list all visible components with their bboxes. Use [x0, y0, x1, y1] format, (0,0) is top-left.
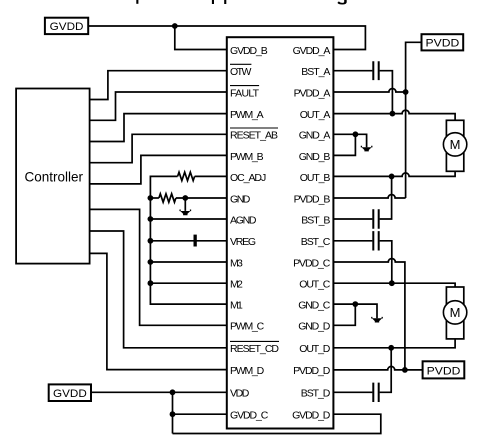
wire M2 pin to bus	[150, 282, 226, 284]
wire GND_A pin to ground	[333, 134, 366, 147]
IC U1 body	[227, 37, 334, 428]
wire GND pin to R2 and node	[176, 197, 227, 199]
svg-text:GND_D: GND_D	[298, 321, 331, 333]
svg-text:GND: GND	[230, 193, 251, 205]
svg-text:GND_C: GND_C	[298, 300, 331, 312]
resistor R2 (GND to AGND)	[159, 194, 176, 202]
svg-text:PWM_B: PWM_B	[230, 151, 264, 163]
wire C4 up to OUT_D node	[380, 348, 392, 393]
wire C2 up to OUT_B node	[380, 176, 392, 219]
svg-text:GND_B: GND_B	[299, 151, 331, 163]
controller block	[16, 89, 90, 264]
ground symbol (GND_C/GND_D)	[372, 317, 382, 323]
overline OTW	[230, 63, 251, 65]
wire GVDD_D pin down and along bottom	[173, 414, 381, 433]
capacitor C4 (BST_D bootstrap) plates	[373, 383, 378, 402]
svg-text:PVDD: PVDD	[426, 38, 460, 50]
wire PWM_B pin to controller	[90, 155, 227, 184]
wire GND_D pin up to GND_C node	[333, 304, 355, 325]
ground symbol (GND pin net, left)	[180, 210, 190, 216]
svg-text:OUT_B: OUT_B	[300, 172, 331, 184]
svg-text:Controller: Controller	[25, 169, 84, 185]
svg-text:M1: M1	[230, 300, 243, 312]
capacitor C2 (BST_B bootstrap) plates	[373, 209, 378, 228]
svg-text:GVDD: GVDD	[50, 21, 84, 33]
svg-text:BST_B: BST_B	[301, 214, 330, 226]
wire GND_B pin up to GND_A node	[333, 134, 355, 155]
wire RESET_AB pin to controller	[90, 134, 227, 162]
wire C1 to OUT_A node	[380, 71, 393, 114]
wire GVDD top rail to GVDD_A	[88, 26, 365, 50]
clipped title text descender mark 3	[224, 0, 226, 4]
junction AGND bus / GND resistor	[148, 195, 154, 201]
wire OUT_C pin to motor M2 top	[333, 283, 455, 287]
wire GVDD bottom flag to VDD pin	[91, 391, 227, 393]
svg-text:OTW: OTW	[230, 66, 251, 78]
wire M3 pin to bus	[150, 261, 226, 263]
wire AGND pin to bus	[150, 218, 226, 220]
junction GVDD top / GVDD_B	[172, 23, 178, 29]
wire PVDD_C pin to lower PVDD rail (hop over bootstrap vertical)	[333, 259, 405, 370]
svg-text:M: M	[450, 305, 461, 320]
wire FAULT pin to controller	[90, 92, 227, 120]
wire PWM_A pin to controller	[90, 114, 227, 142]
wire BST_A pin to bootstrap cap C1	[333, 70, 372, 72]
clipped title text descender mark 2	[212, 0, 214, 4]
svg-text:GVDD: GVDD	[53, 388, 87, 400]
ground symbol (GND_A/GND_B)	[361, 146, 371, 152]
svg-text:GVDD_D: GVDD_D	[292, 410, 331, 422]
svg-text:M2: M2	[230, 279, 243, 291]
svg-text:PWM_D: PWM_D	[230, 365, 265, 377]
capacitor C5 (VREG decoupling)	[194, 235, 197, 247]
clipped title text descender mark 4 (g tail)	[337, 0, 346, 5]
overline RESET_CD	[230, 340, 279, 342]
power flag GVDD (top left)	[45, 18, 88, 34]
wire VREG pin through cap C5 to bus	[150, 240, 226, 242]
junction PVDD lower rail / PVDD_D	[402, 367, 408, 373]
wire PVDD_D pin to PVDD bottom flag (hop over bootstrap vertical)	[333, 366, 422, 370]
svg-text:FAULT: FAULT	[230, 87, 260, 99]
junction AGND bus / AGND pin	[148, 216, 154, 222]
svg-text:OUT_C: OUT_C	[299, 279, 331, 291]
svg-text:GVDD_B: GVDD_B	[230, 45, 268, 57]
wire PVDD_B pin to rail end (hop over bootstrap vertical)	[333, 195, 405, 199]
svg-text:PWM_A: PWM_A	[230, 109, 264, 121]
svg-text:AGND: AGND	[230, 214, 257, 226]
svg-text:BST_A: BST_A	[301, 66, 330, 78]
svg-text:PVDD_C: PVDD_C	[293, 257, 331, 269]
wire PVDD top flag to rail, down to PVDD_B	[406, 42, 422, 198]
wire controller to PWM_C pin	[90, 209, 227, 325]
wire R2 left end to AGND bus	[150, 197, 159, 199]
wire OTW pin to controller	[90, 71, 227, 100]
wire GND node down to ground symbol	[184, 198, 186, 211]
capacitor C3 (BST_C bootstrap) plates	[373, 231, 378, 250]
svg-text:GVDD_A: GVDD_A	[293, 45, 331, 57]
wire GVDD branch to GVDD_B pin	[175, 26, 227, 50]
junction OUT_B / C2	[389, 174, 395, 180]
junction AGND bus / VREG	[148, 238, 154, 244]
svg-text:PVDD_B: PVDD_B	[294, 193, 331, 205]
power flag GVDD (bottom left)	[49, 384, 91, 401]
wire GVDD bottom branch down to bottom run	[172, 392, 174, 433]
svg-text:VDD: VDD	[230, 388, 250, 400]
overline FAULT	[230, 85, 259, 87]
junction GND_A / GND_B	[353, 131, 359, 137]
svg-text:PWM_C: PWM_C	[230, 321, 265, 333]
svg-text:BST_C: BST_C	[301, 236, 331, 248]
svg-text:OUT_D: OUT_D	[299, 343, 331, 355]
junction GVDD bottom / GVDD_C	[170, 411, 176, 417]
overline RESET_AB	[230, 127, 278, 129]
svg-text:M3: M3	[230, 257, 243, 269]
wire OUT_A pin to motor M1 top (hop over PVDD rail)	[333, 110, 455, 120]
svg-text:RESET_CD: RESET_CD	[230, 343, 279, 355]
junction GVDD bottom / VDD	[170, 389, 176, 395]
wire PVDD_A pin to rail (hop over bootstrap vertical)	[333, 89, 405, 93]
junction OUT_A / C1	[390, 111, 396, 117]
junction GND_C / GND_D	[352, 301, 358, 307]
wire BST_D pin to bootstrap cap C4	[333, 391, 372, 393]
wire BST_C pin to bootstrap cap C3	[333, 240, 372, 242]
wire OUT_B pin to motor M1 bottom (hop over PVDD rail)	[333, 171, 455, 176]
wire OUT_D pin to motor M2 bottom	[333, 339, 455, 348]
svg-text:PVDD_A: PVDD_A	[294, 87, 331, 99]
clipped title text descender mark 1	[136, 0, 138, 4]
wire BST_B pin to bootstrap cap C2	[333, 218, 372, 220]
wire GND_C pin to ground	[333, 304, 377, 318]
svg-text:PVDD: PVDD	[427, 365, 461, 377]
motor M1 (OUT_A / OUT_B)	[443, 120, 466, 171]
junction GND node / ground branch	[182, 195, 188, 201]
wire controller to PWM_D pin	[90, 253, 227, 369]
svg-text:PVDD_D: PVDD_D	[293, 365, 331, 377]
svg-text:VREG: VREG	[230, 236, 256, 248]
svg-text:RESET_AB: RESET_AB	[230, 130, 278, 142]
wire C3 down to OUT_C node	[380, 241, 392, 283]
svg-text:GVDD_C: GVDD_C	[230, 410, 269, 422]
svg-text:BST_D: BST_D	[301, 388, 331, 400]
wire controller to RESET_CD pin	[90, 231, 227, 348]
svg-text:M: M	[450, 137, 461, 152]
wire AGND bus (R1 left end down to M1 pin)	[150, 176, 226, 304]
junction OUT_D / C4	[388, 345, 394, 351]
capacitor C1 (BST_A bootstrap) plates	[373, 61, 378, 80]
svg-text:GND_A: GND_A	[299, 130, 331, 142]
junction OUT_C / C3	[389, 280, 395, 286]
motor M2 (OUT_C / OUT_D)	[443, 287, 466, 339]
junction AGND bus / M2	[148, 280, 154, 286]
junction PVDD rail / PVDD_A	[403, 89, 409, 95]
power flag PVDD (bottom right)	[423, 361, 465, 378]
svg-text:OC_ADJ: OC_ADJ	[230, 172, 266, 184]
junction AGND bus / M3	[148, 259, 154, 265]
wire OC_ADJ pin to resistor R1	[195, 175, 227, 177]
resistor R1 (OC_ADJ)	[178, 172, 195, 180]
svg-text:OUT_A: OUT_A	[300, 109, 331, 121]
power flag PVDD (top right)	[422, 34, 464, 50]
wire GVDD_C pin	[173, 413, 227, 415]
